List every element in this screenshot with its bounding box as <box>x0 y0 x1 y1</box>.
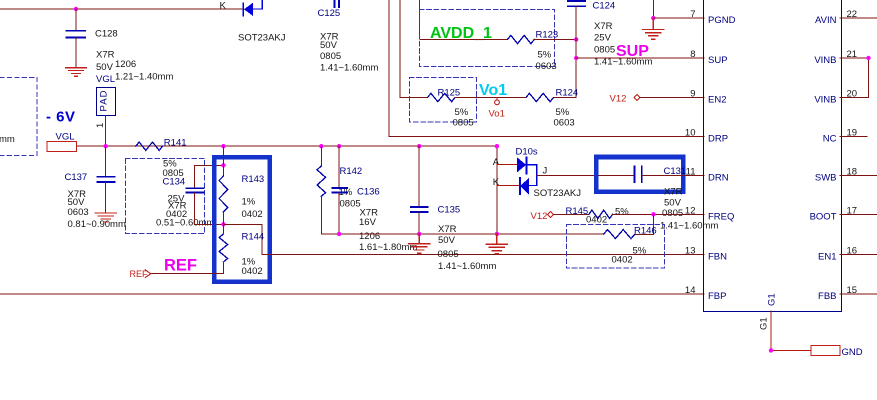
resistor R123 <box>508 35 535 43</box>
svg-text:25V: 25V <box>594 32 612 43</box>
svg-text:PGND: PGND <box>708 15 736 26</box>
svg-text:0402: 0402 <box>242 209 263 220</box>
svg-text:10: 10 <box>685 128 696 139</box>
svg-text:R124: R124 <box>556 88 579 99</box>
junction dot C135 at rail <box>417 232 421 236</box>
svg-text:C137: C137 <box>65 172 88 183</box>
port Vo1 circle <box>496 98 498 101</box>
svg-text:C136: C136 <box>357 187 380 198</box>
svg-text:0603: 0603 <box>68 207 89 218</box>
wire V12 to pin 9 <box>640 97 704 99</box>
junction dot C136 at main row <box>337 144 341 148</box>
svg-text:VINB: VINB <box>814 95 836 106</box>
svg-text:C125: C125 <box>318 8 341 19</box>
resistor R142 <box>317 166 326 196</box>
svg-text:0402: 0402 <box>242 266 263 277</box>
svg-text:13: 13 <box>685 245 696 256</box>
svg-text:C135: C135 <box>438 205 461 216</box>
resistor R124 <box>526 93 554 101</box>
svg-text:1.41~1.60mm: 1.41~1.60mm <box>438 261 496 272</box>
svg-text:16V: 16V <box>359 217 377 228</box>
svg-text:C124: C124 <box>593 0 616 11</box>
resistor R125 <box>428 93 455 101</box>
wire R145 to pin 12 <box>613 213 704 215</box>
capacitor C131 <box>634 167 641 183</box>
wire cathode stub <box>497 185 520 187</box>
port VGL <box>47 142 76 152</box>
pad P1 box <box>97 88 116 116</box>
junction dot pin 21 <box>866 56 870 60</box>
port diamond V12 en2 <box>634 95 640 101</box>
wire bottom rail <box>321 233 603 235</box>
svg-text:VINB: VINB <box>814 55 836 66</box>
capacitor C137 <box>97 177 114 182</box>
port diamond V12 <box>548 211 554 217</box>
wire C134 top jog <box>194 165 223 187</box>
svg-text:X7R: X7R <box>594 21 613 32</box>
wire J to C131 <box>537 175 634 177</box>
svg-text:R146: R146 <box>634 225 657 236</box>
wire stub above AVDD_1 box <box>419 0 421 39</box>
svg-text:D10s: D10s <box>516 147 538 158</box>
wire C136 top lead <box>338 146 340 187</box>
wire pin 15 stub <box>840 293 877 295</box>
svg-text:VGL: VGL <box>96 74 115 85</box>
wire R143 bottom lead <box>222 212 224 224</box>
svg-text:X7R: X7R <box>96 50 115 61</box>
svg-text:EN1: EN1 <box>818 252 836 263</box>
svg-text:FBB: FBB <box>818 291 836 302</box>
svg-text:R123: R123 <box>536 29 559 40</box>
wire R123 to C124 column <box>535 39 577 41</box>
svg-text:Vo1: Vo1 <box>479 82 507 99</box>
wire anode stub <box>497 164 517 166</box>
svg-text:1: 1 <box>95 123 106 128</box>
svg-text:12: 12 <box>685 206 696 217</box>
wire R142 top lead <box>320 146 322 166</box>
wire C124 column <box>554 7 577 98</box>
wire FBP full row (pin 14) <box>0 293 704 295</box>
wire pin 18 stub <box>840 175 877 177</box>
junction dot at C128 tap <box>74 7 78 11</box>
junction dot corner main row <box>495 144 499 148</box>
wire FBN jog to pin 13 <box>223 224 704 254</box>
svg-text:R125: R125 <box>438 88 461 99</box>
svg-text:1%: 1% <box>242 197 256 208</box>
svg-text:14: 14 <box>685 285 696 296</box>
svg-text:0805: 0805 <box>320 51 341 62</box>
wire C128 bottom lead <box>75 38 77 67</box>
svg-text:Vo1: Vo1 <box>489 109 505 120</box>
svg-text:EN2: EN2 <box>708 95 726 106</box>
svg-text:R142: R142 <box>340 166 363 177</box>
svg-text:FBN: FBN <box>708 252 727 263</box>
dashed box around R145/R146 <box>567 225 665 269</box>
svg-text:0805: 0805 <box>340 199 361 210</box>
resistor R146 <box>604 230 635 239</box>
wire C137 bottom lead <box>105 183 107 213</box>
svg-text:BOOT: BOOT <box>810 212 837 223</box>
diode (top-left, SOT23AKJ half) <box>243 0 262 16</box>
svg-text:SWB: SWB <box>815 173 837 184</box>
svg-text:DRN: DRN <box>708 173 729 184</box>
svg-text:K: K <box>220 1 227 12</box>
svg-text:0805: 0805 <box>662 208 683 219</box>
svg-text:0805: 0805 <box>453 118 474 129</box>
svg-text:GND: GND <box>842 347 863 358</box>
svg-text:1.21~1.40mm: 1.21~1.40mm <box>115 72 173 83</box>
junction dot R142 at main row <box>319 144 323 148</box>
svg-text:5%: 5% <box>455 107 469 118</box>
svg-text:50V: 50V <box>664 198 682 209</box>
junction dot C135 at main row <box>417 144 421 148</box>
svg-text:J: J <box>543 165 548 176</box>
wire SUP to pin 8 <box>576 57 704 59</box>
wire C128 top lead <box>75 9 77 30</box>
wire R143 top lead <box>222 146 224 176</box>
svg-text:1.41~1.60mm: 1.41~1.60mm <box>320 63 378 74</box>
svg-text:SOT23AKJ: SOT23AKJ <box>238 33 286 44</box>
ground below C135 <box>409 234 430 253</box>
junction dot C134 top <box>221 163 225 167</box>
capacitor C125 (cut off at top) <box>334 0 338 7</box>
svg-text:C128: C128 <box>95 29 118 40</box>
junction dot at rail/ground <box>495 232 499 236</box>
junction dot pad/VGL <box>104 144 108 148</box>
wire pin 21 to pin 20 jog <box>840 58 869 98</box>
svg-text:R144: R144 <box>242 232 265 243</box>
svg-text:X7R: X7R <box>664 187 683 198</box>
svg-text:0603: 0603 <box>554 118 575 129</box>
svg-text:FREQ: FREQ <box>708 212 734 223</box>
resistor R145 <box>589 210 613 218</box>
svg-text:A: A <box>493 157 500 168</box>
svg-text:R145: R145 <box>566 206 589 217</box>
thick selection box around R143/R144 <box>214 157 269 281</box>
svg-text:DRP: DRP <box>708 134 728 145</box>
svg-text:50V: 50V <box>96 62 114 73</box>
svg-text:C134: C134 <box>163 177 186 188</box>
wire VGL main row <box>77 145 497 147</box>
svg-text:NC: NC <box>823 134 837 145</box>
wire pin 17 stub <box>840 214 877 216</box>
svg-text:SUP: SUP <box>708 55 728 66</box>
dashed box (left edge, partial) <box>0 78 37 156</box>
wire pad stem <box>105 116 107 147</box>
wire pin 22 stub <box>840 17 877 19</box>
wire AVDD_1 to R123 <box>421 39 508 41</box>
svg-text:K: K <box>493 177 500 188</box>
port GND <box>811 346 840 356</box>
capacitor C135 <box>411 207 428 212</box>
resistor R141 <box>136 142 163 150</box>
svg-text:G1: G1 <box>767 293 778 306</box>
svg-text:V12: V12 <box>610 94 627 105</box>
svg-text:8: 8 <box>690 49 695 60</box>
svg-text:0.81~0.90mm: 0.81~0.90mm <box>68 219 126 230</box>
ground at rail right end <box>486 234 507 254</box>
dashed box AVDD_1 region <box>420 10 555 67</box>
svg-text:0.51~0.60mm: 0.51~0.60mm <box>156 218 214 229</box>
wire R146 right leg <box>635 214 654 234</box>
wire top-left horizontal net <box>0 8 244 10</box>
svg-text:7: 7 <box>690 9 695 20</box>
wire V12 to R145 <box>554 213 589 215</box>
wire G1 to GND <box>771 311 811 350</box>
svg-text:G1: G1 <box>759 317 770 330</box>
IC body outline U1 <box>704 0 842 312</box>
svg-text:9: 9 <box>690 89 695 100</box>
svg-text:SUP: SUP <box>616 43 649 60</box>
svg-text:FBP: FBP <box>708 291 726 302</box>
wire C136 bottom lead <box>338 193 340 234</box>
svg-text:0402: 0402 <box>612 255 633 266</box>
junction dot R143 top at main row <box>221 144 225 148</box>
svg-text:1206: 1206 <box>115 59 136 70</box>
ground below C128 <box>66 68 87 77</box>
ground at pin 7 <box>643 18 664 39</box>
resistor R143 <box>219 176 228 212</box>
wire C135 bottom lead <box>418 212 420 234</box>
svg-text:5%: 5% <box>538 50 552 61</box>
resistor R144 <box>219 234 228 262</box>
svg-text:V12: V12 <box>531 211 548 222</box>
svg-text:50V: 50V <box>320 40 338 51</box>
capacitor C134 <box>186 188 203 192</box>
svg-text:50V: 50V <box>438 235 456 246</box>
svg-text:SOT23AKJ: SOT23AKJ <box>534 188 582 199</box>
wire vertical to R125 <box>400 0 428 98</box>
svg-text:0603: 0603 <box>536 61 557 72</box>
wire pin 16 stub <box>840 254 877 256</box>
wire pin 7 stub <box>653 17 704 19</box>
wire C131 to pin 11 <box>642 175 704 177</box>
wire C137 top lead <box>105 146 107 176</box>
wire corner main row down to rail <box>496 146 498 234</box>
svg-text:5%: 5% <box>615 206 629 217</box>
junction dot C136 at rail <box>337 232 341 236</box>
wire pin 19 stub <box>840 136 867 138</box>
wire DRP vertical + pin 10 row <box>389 0 704 137</box>
svg-text:- 6V: - 6V <box>46 109 76 126</box>
wire R144 leads to REF <box>151 224 223 273</box>
wire C134 bottom jog <box>194 193 223 224</box>
svg-text:11: 11 <box>686 167 696 178</box>
svg-text:1206: 1206 <box>359 231 380 242</box>
thick selection box around C131 <box>596 157 683 192</box>
junction dot pin 7 <box>651 16 655 20</box>
junction dot R143/R144 <box>221 222 225 226</box>
capacitor C124 <box>568 1 585 6</box>
ground below C137 <box>95 213 116 222</box>
svg-text:0805: 0805 <box>594 45 615 56</box>
svg-text:0805: 0805 <box>438 249 459 260</box>
svg-text:5%: 5% <box>556 107 570 118</box>
wire C135 top lead <box>418 146 420 206</box>
junction dot SUP <box>574 56 578 60</box>
svg-text:REF: REF <box>164 257 197 275</box>
dashed box around C134 <box>126 159 205 234</box>
junction dot G1 <box>769 348 773 352</box>
capacitor C136 <box>333 188 348 193</box>
wire R142 bottom lead to rail <box>320 196 322 234</box>
svg-text:R141: R141 <box>164 138 187 149</box>
dashed box around R125 <box>410 78 477 123</box>
svg-text:mm: mm <box>0 134 15 145</box>
svg-text:AVIN: AVIN <box>815 15 837 26</box>
junction dot R146 tap <box>651 212 655 216</box>
junction dot R123/C124 <box>574 37 578 41</box>
svg-text:PAD: PAD <box>98 90 109 111</box>
wire PGND vertical <box>652 0 654 18</box>
capacitor C128 <box>66 31 85 38</box>
svg-text:X7R: X7R <box>438 224 457 235</box>
wire R125 to R124 <box>455 97 526 99</box>
svg-text:VGL: VGL <box>56 132 75 143</box>
svg-text:5%: 5% <box>633 246 647 257</box>
svg-text:R143: R143 <box>242 174 265 185</box>
